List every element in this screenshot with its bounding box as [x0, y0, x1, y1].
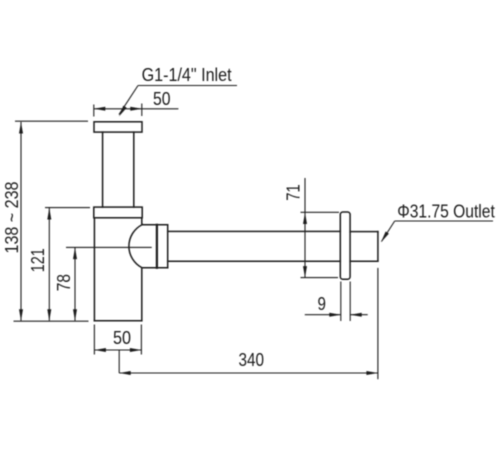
top 50 extension left — [93, 105, 95, 117]
svg-text:50: 50 — [153, 89, 171, 109]
121 dimension line — [48, 208, 50, 321]
bottle body right wall lower — [141, 268, 143, 321]
bottle body bottom — [94, 320, 141, 322]
arrow top50 left — [94, 107, 106, 111]
svg-text:9: 9 — [318, 294, 326, 314]
arrowheads group — [19, 106, 389, 375]
bottom extension line — [14, 320, 89, 322]
inlet flange — [94, 122, 142, 132]
outlet pipe top — [350, 231, 378, 233]
outlet leader diagonal — [382, 221, 395, 242]
inlet leader diagonal — [119, 86, 138, 115]
svg-text:121: 121 — [28, 248, 48, 272]
top 50 extension right — [141, 104, 143, 117]
9 dimension line right part — [350, 314, 368, 316]
svg-text:G1-1/4" Inlet: G1-1/4" Inlet — [142, 65, 232, 85]
arrow 340 right — [366, 371, 378, 375]
wall flange — [340, 212, 350, 279]
svg-text:78: 78 — [54, 274, 74, 291]
bottom 50 extension left — [93, 325, 95, 355]
nut right edge — [167, 225, 169, 268]
arrow top50 right — [130, 107, 142, 111]
elbow bottom edge — [142, 267, 168, 269]
bottle body left wall — [93, 218, 95, 321]
inlet leader shelf — [138, 85, 237, 87]
bottom 50 extension right — [140, 325, 142, 355]
arrow 138 top — [19, 122, 23, 134]
body top flange — [94, 207, 142, 218]
elbow top edge — [143, 224, 168, 226]
bottle body right wall upper — [141, 218, 143, 225]
arrow bottom50 left — [94, 348, 106, 352]
horizontal pipe bottom — [168, 260, 341, 262]
arrow 9 right — [350, 313, 362, 317]
9 extension right — [349, 282, 351, 322]
svg-text:138 ~ 238: 138 ~ 238 — [2, 182, 22, 254]
340 dimension line — [119, 372, 378, 374]
labels group — [2, 65, 495, 370]
outlet pipe bottom — [350, 260, 378, 262]
outlet pipe end — [377, 232, 379, 262]
arrow 340 left — [119, 371, 131, 375]
arrow outlet leader — [381, 232, 389, 243]
arrow bottom50 right — [130, 348, 142, 352]
121 top extension — [45, 207, 90, 209]
arrow 121 bottom — [47, 309, 51, 321]
elbow bulge arc — [129, 225, 143, 268]
arrow 78 bottom — [73, 309, 77, 321]
inlet pipe wall right — [133, 132, 135, 207]
arrow 121 top — [47, 208, 51, 220]
78 dimension line — [74, 248, 76, 321]
71 dimension line — [304, 178, 306, 278]
340 right extension — [377, 268, 379, 379]
nut ring line — [156, 225, 158, 268]
dimension lines group — [14, 86, 494, 380]
top 50 dimension line — [94, 108, 179, 110]
340 left riser — [118, 350, 120, 373]
71 top extension — [301, 211, 340, 213]
inlet pipe wall left — [102, 132, 104, 207]
bottom 50 dimension line — [94, 349, 141, 351]
138-238 top extension — [15, 120, 88, 122]
arrow 9 left — [329, 313, 341, 317]
svg-text:71: 71 — [284, 184, 304, 200]
object outline group — [94, 122, 378, 321]
svg-text:340: 340 — [239, 350, 265, 370]
svg-text:50: 50 — [113, 328, 131, 348]
arrow 78 top — [73, 248, 77, 260]
arrow 138 bottom — [19, 309, 23, 321]
9 extension left — [340, 282, 342, 322]
78 centerline extension — [66, 246, 152, 248]
arrow 71 top — [303, 213, 307, 225]
9 dimension line left part — [305, 314, 341, 316]
138-238 dimension line — [20, 122, 22, 321]
71 bottom extension — [301, 277, 339, 279]
arrow 71 bottom — [303, 266, 307, 278]
svg-text:Φ31.75 Outlet: Φ31.75 Outlet — [397, 201, 495, 221]
outlet leader shelf — [395, 220, 493, 222]
horizontal pipe top — [168, 230, 341, 232]
arrow inlet leader — [119, 106, 127, 117]
